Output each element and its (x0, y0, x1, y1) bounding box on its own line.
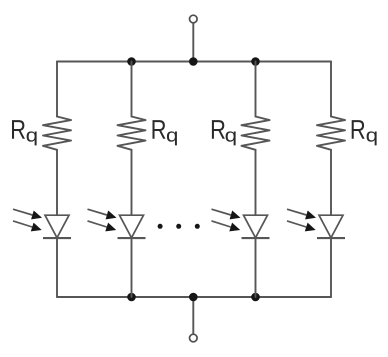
wire: bottom terminal lead (192, 297, 194, 334)
node: bottom rail junction at branch 2 (127, 293, 136, 302)
node: top rail junction at branch 2 (127, 57, 136, 66)
wire: branch 1 middle segment (56, 150, 58, 215)
node: bottom rail junction at terminal (189, 293, 198, 302)
label Rq for resistor R4 (352, 120, 377, 145)
photodiode D3 light arrow 1 (212, 209, 231, 215)
photodiode D4 triangle (319, 215, 343, 238)
ellipsis (continuation dots) (158, 224, 200, 229)
photodiode D1 cathode bar (43, 237, 71, 239)
wire: branch 4 middle segment (330, 150, 332, 215)
photodiode D2 triangle (120, 215, 144, 238)
wire: branch 3 upper segment (255, 62, 257, 117)
photodiode D1 triangle (45, 215, 69, 238)
node: top rail junction at terminal (189, 57, 198, 66)
resistor R1 (Rq) (43, 117, 71, 150)
resistor R3 (Rq) (242, 117, 270, 150)
photodiode D4 cathode bar (317, 237, 345, 239)
photodiode D4 light arrow 1 (287, 209, 306, 215)
photodiode D1 light arrow 2 (13, 221, 32, 227)
wire: top rail (57, 61, 331, 63)
photodiode D3 triangle (244, 215, 268, 238)
wire: branch 2 upper segment (131, 62, 133, 117)
wire: branch 3 middle segment (255, 150, 257, 215)
wire: branch 4 upper segment (330, 62, 332, 117)
photodiode D2 light arrow 1 (88, 209, 107, 215)
wire: branch 2 lower segment (131, 238, 133, 297)
resistor R2 (Rq) (118, 117, 146, 150)
wire: bottom rail (57, 296, 331, 298)
label Rq for resistor R1 (12, 120, 37, 145)
terminal T2 (bottom) (190, 334, 198, 342)
wire: branch 2 middle segment (131, 150, 133, 215)
label Rq for resistor R3 (212, 120, 236, 145)
wire: branch 4 lower segment (330, 238, 332, 297)
photodiode D4 light arrow 2 (287, 221, 306, 227)
node: bottom rail junction at branch 3 (251, 293, 260, 302)
resistor R4 (Rq) (317, 117, 345, 150)
wire: branch 1 lower segment (56, 238, 58, 297)
photodiode D1 light arrow 1 (13, 209, 32, 215)
photodiode D3 light arrow 2 (212, 221, 231, 227)
wire: top terminal lead (192, 23, 194, 62)
label Rq for resistor R2 (152, 120, 176, 145)
photodiode D2 cathode bar (118, 237, 146, 239)
node: top rail junction at branch 3 (251, 57, 260, 66)
terminal T1 (top) (190, 15, 198, 23)
wire: branch 3 lower segment (255, 238, 257, 297)
photodiode D2 light arrow 2 (88, 221, 107, 227)
photodiode D3 cathode bar (242, 237, 270, 239)
wire: branch 1 upper segment (56, 62, 58, 117)
